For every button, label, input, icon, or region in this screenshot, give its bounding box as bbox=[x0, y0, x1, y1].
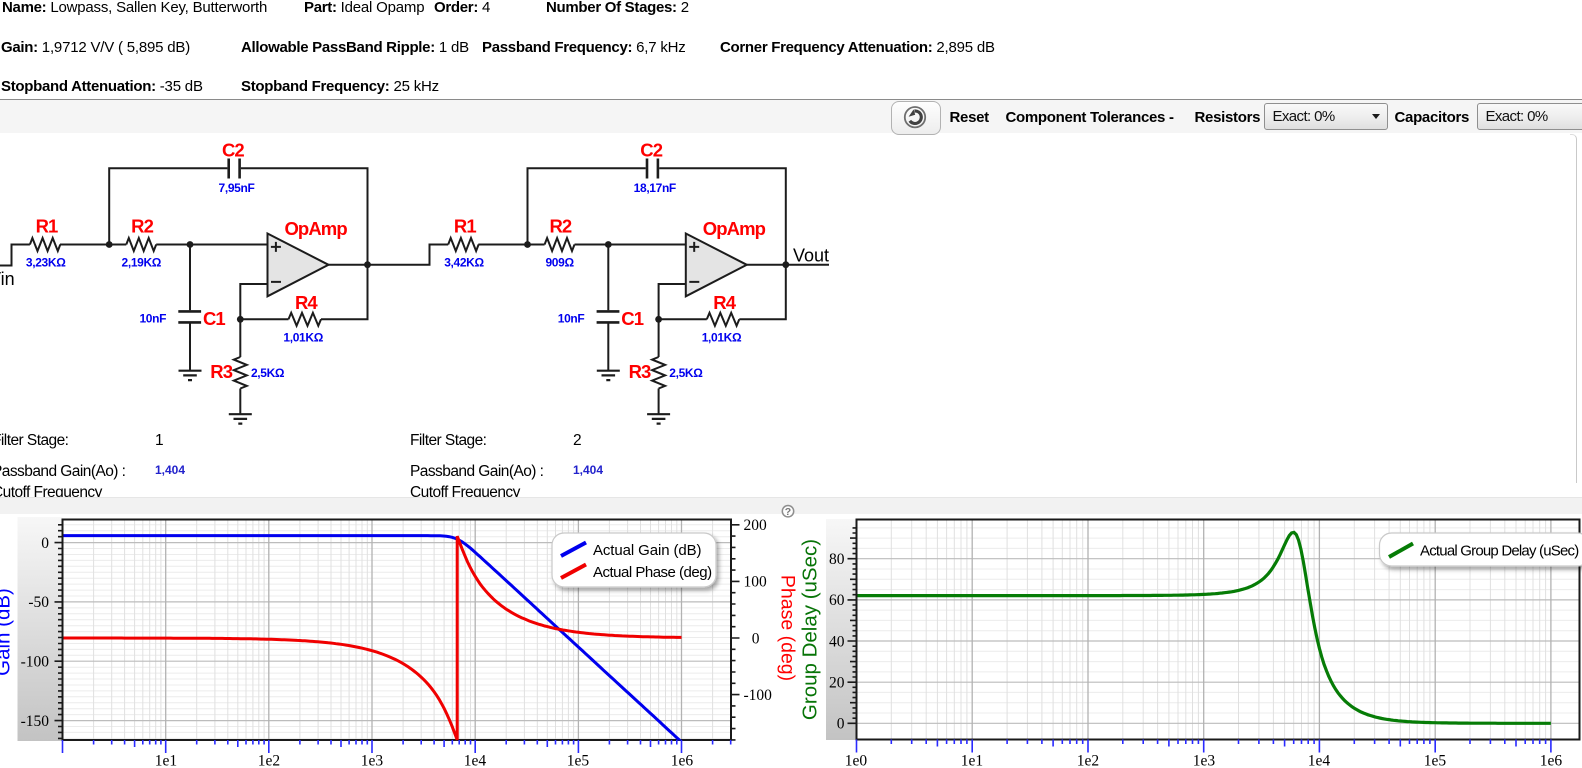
svg-text:-50: -50 bbox=[28, 594, 49, 611]
svg-text:909Ω: 909Ω bbox=[545, 256, 574, 270]
svg-text:1,01KΩ: 1,01KΩ bbox=[702, 331, 742, 345]
svg-text:R2: R2 bbox=[131, 215, 153, 236]
svg-text:80: 80 bbox=[829, 551, 845, 568]
svg-text:R3: R3 bbox=[210, 361, 232, 382]
svg-text:2,5KΩ: 2,5KΩ bbox=[669, 366, 703, 380]
svg-text:1e4: 1e4 bbox=[1308, 753, 1331, 768]
wire: R4 feedback path stage 2 bbox=[659, 265, 786, 320]
wire: R3 to ground stage 2 bbox=[658, 319, 660, 414]
svg-text:1,01KΩ: 1,01KΩ bbox=[283, 331, 323, 345]
header row 3 bbox=[1, 79, 203, 95]
svg-text:R1: R1 bbox=[454, 215, 476, 236]
svg-text:100: 100 bbox=[744, 574, 768, 591]
wire: R3 to ground stage 1 bbox=[239, 319, 241, 414]
capacitor C1 stage 2 bbox=[597, 311, 620, 322]
svg-text:10nF: 10nF bbox=[139, 312, 166, 326]
svg-text:Vin: Vin bbox=[0, 269, 15, 289]
svg-text:20: 20 bbox=[829, 675, 845, 692]
divider strip bbox=[0, 497, 1582, 514]
capacitor C2 stage 1 bbox=[229, 159, 240, 179]
svg-text:Actual Phase (deg): Actual Phase (deg) bbox=[593, 564, 712, 581]
reset button with undo icon bbox=[891, 101, 942, 135]
svg-text:1e3: 1e3 bbox=[1193, 753, 1216, 768]
stage info bbox=[0, 432, 68, 449]
svg-text:3,42KΩ: 3,42KΩ bbox=[444, 255, 484, 269]
svg-text:200: 200 bbox=[744, 517, 768, 534]
curve: actual gain bbox=[63, 536, 682, 742]
resistor R4 stage 2 bbox=[707, 313, 740, 326]
svg-text:1e2: 1e2 bbox=[258, 753, 280, 768]
help icon bbox=[780, 503, 797, 520]
svg-text:10nF: 10nF bbox=[558, 312, 585, 326]
wire: C1 branch stage 1 bbox=[189, 245, 191, 371]
toolbar bbox=[0, 99, 1582, 101]
svg-text:1e0: 1e0 bbox=[845, 753, 868, 768]
wire: op-amp output stage 2 bbox=[747, 264, 786, 266]
svg-text:1e4: 1e4 bbox=[464, 753, 487, 768]
svg-text:Phase (deg): Phase (deg) bbox=[777, 575, 799, 681]
svg-text:40: 40 bbox=[829, 633, 845, 650]
dropdown: capacitors tolerance bbox=[1477, 103, 1582, 131]
node: op-amp output junction stage 1 bbox=[364, 261, 371, 268]
resistor R1 stage 2 bbox=[448, 238, 478, 251]
svg-text:R3: R3 bbox=[629, 361, 651, 382]
wire: op-amp inverting input loop stage 1 bbox=[240, 284, 267, 319]
svg-text:2,19KΩ: 2,19KΩ bbox=[122, 256, 162, 270]
svg-text:1e2: 1e2 bbox=[1077, 753, 1099, 768]
svg-text:18,17nF: 18,17nF bbox=[634, 181, 676, 195]
node: junction after R2 stage 1 bbox=[187, 241, 194, 248]
dropdown: resistors tolerance bbox=[1264, 103, 1388, 131]
svg-text:2,5KΩ: 2,5KΩ bbox=[251, 366, 285, 380]
wire: C2 feedback loop stage 2 bbox=[528, 168, 786, 264]
svg-text:Vout: Vout bbox=[793, 246, 829, 266]
capacitor C2 stage 2 bbox=[647, 159, 658, 179]
node: junction after R1 stage 2 bbox=[524, 241, 531, 248]
resistor R2 stage 2 bbox=[545, 238, 575, 251]
svg-text:1e3: 1e3 bbox=[361, 753, 384, 768]
svg-text:60: 60 bbox=[829, 592, 845, 609]
wire: Vin input bbox=[0, 245, 30, 266]
svg-text:Actual Gain (dB): Actual Gain (dB) bbox=[593, 542, 702, 559]
svg-text:C2: C2 bbox=[640, 140, 662, 161]
ground below C1 stage 2 bbox=[597, 371, 620, 380]
svg-text:Group Delay (uSec): Group Delay (uSec) bbox=[799, 539, 822, 720]
svg-text:0: 0 bbox=[752, 630, 760, 647]
node: feedback junction stage 1 bbox=[237, 316, 244, 323]
svg-text:R4: R4 bbox=[713, 292, 736, 313]
ground below C1 stage 1 bbox=[179, 371, 202, 380]
op-amp U2 bbox=[686, 234, 747, 297]
node: feedback junction stage 2 bbox=[655, 316, 662, 323]
curve: actual group delay bbox=[857, 532, 1551, 723]
wire: op-amp output stage 1 bbox=[329, 264, 368, 266]
chart 1: gain/phase bode plot bbox=[18, 517, 63, 741]
svg-text:1e1: 1e1 bbox=[155, 753, 177, 768]
svg-text:?: ? bbox=[785, 506, 791, 518]
resistor R3 stage 1 bbox=[234, 357, 247, 389]
svg-text:3,23KΩ: 3,23KΩ bbox=[26, 255, 66, 269]
svg-text:R2: R2 bbox=[549, 215, 571, 236]
node: junction after R2 stage 2 bbox=[605, 241, 612, 248]
ground below R3 stage 2 bbox=[647, 414, 670, 423]
svg-text:1e6: 1e6 bbox=[1540, 753, 1563, 768]
wire: Vout output bbox=[786, 264, 829, 266]
schematic panel right border bbox=[1570, 134, 1577, 483]
node: junction after R1 stage 1 bbox=[106, 241, 113, 248]
svg-text:0: 0 bbox=[837, 716, 845, 733]
resistor R1 stage 1 bbox=[30, 238, 60, 251]
header row 1 bbox=[2, 0, 267, 16]
svg-text:1e5: 1e5 bbox=[1424, 753, 1447, 768]
wire: R4 feedback path stage 1 bbox=[240, 265, 367, 320]
svg-text:C1: C1 bbox=[203, 308, 225, 329]
wire: stage 1 input node to R2 to op-amp bbox=[60, 244, 268, 246]
svg-text:C1: C1 bbox=[621, 308, 643, 329]
svg-text:7,95nF: 7,95nF bbox=[219, 181, 255, 195]
svg-text:R4: R4 bbox=[295, 292, 318, 313]
wire: C1 branch stage 2 bbox=[607, 245, 609, 371]
svg-text:1e5: 1e5 bbox=[567, 753, 590, 768]
resistor R4 stage 1 bbox=[289, 313, 322, 326]
svg-text:Actual Group Delay (uSec): Actual Group Delay (uSec) bbox=[1420, 543, 1579, 560]
wire: stage 2 input node to R2 to op-amp bbox=[478, 244, 686, 246]
svg-text:0: 0 bbox=[41, 535, 49, 552]
svg-text:-100: -100 bbox=[21, 654, 50, 671]
svg-text:OpAmp: OpAmp bbox=[284, 218, 347, 239]
capacitor C1 stage 1 bbox=[178, 311, 201, 322]
node: op-amp output junction stage 2 bbox=[782, 261, 789, 268]
svg-text:OpAmp: OpAmp bbox=[703, 218, 766, 239]
chart 2: group delay bbox=[826, 519, 857, 740]
svg-text:-100: -100 bbox=[744, 687, 773, 704]
svg-text:R1: R1 bbox=[36, 215, 58, 236]
svg-text:Gain (dB): Gain (dB) bbox=[0, 588, 15, 676]
wire: stage 1 output to stage 2 input bbox=[368, 245, 449, 265]
resistor R2 stage 1 bbox=[126, 238, 156, 251]
svg-text:1e6: 1e6 bbox=[671, 753, 694, 768]
wire: C2 feedback loop stage 1 bbox=[109, 168, 367, 264]
svg-text:1e1: 1e1 bbox=[961, 753, 983, 768]
wire: op-amp inverting input loop stage 2 bbox=[659, 284, 686, 319]
svg-text:C2: C2 bbox=[222, 140, 244, 161]
resistor R3 stage 2 bbox=[652, 357, 665, 389]
ground below R3 stage 1 bbox=[229, 414, 252, 423]
legend chart 2 bbox=[1380, 533, 1582, 566]
svg-text:-150: -150 bbox=[21, 713, 50, 730]
op-amp U1 bbox=[268, 234, 329, 297]
header row 2 bbox=[1, 40, 190, 56]
legend chart 1 bbox=[552, 533, 716, 587]
curve: actual phase bbox=[63, 536, 682, 740]
